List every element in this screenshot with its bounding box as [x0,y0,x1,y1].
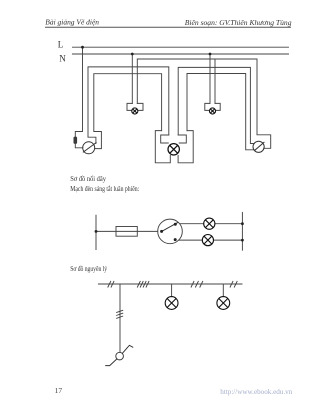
lamp 2 single-line [217,297,230,310]
terminal block on feed wire [74,137,78,144]
junction dot branch1 right [241,222,244,225]
svg-text:N: N [59,53,66,63]
wire lamp2 left lead to N [209,54,211,103]
fuse F1 [116,227,137,237]
junction dot lamp2 on N [209,53,212,56]
schematic neutral bar right [241,212,243,250]
switch S1 blade [83,142,97,152]
contact dot upper [174,223,177,226]
junction dot on L line [81,46,84,49]
junction dot feed bar [95,230,98,233]
switch single-line lower lead [105,359,117,366]
lamp L2 schematic [202,235,213,246]
conductor marks /// on drop [116,310,123,312]
lamp holder 2 outline [205,103,210,110]
svg-text:17: 17 [55,386,63,395]
drop to lamp 2 [222,284,224,297]
wire right loop outer (traveler) [178,67,254,143]
svg-text:Mạch đèn sáng tắt luân phiên:: Mạch đèn sáng tắt luân phiên: [70,185,139,193]
wire left loop inner (traveler) [94,74,162,149]
wire lamp2 right lead tee [214,59,216,103]
wire right loop inner (traveler) [187,74,254,150]
switch single-line blade with hook [122,345,133,353]
schematic phase bar left [95,215,97,249]
lamp Đ1 (holder 1 bulb) [132,108,138,114]
wire N line [73,53,289,55]
conductor marks // left [108,281,111,288]
wire feed to fuse and switch [96,230,158,232]
junction dot lamp1 on N [131,53,134,56]
wire branch 2 [179,239,203,241]
wire lamp1 left lead to N [131,54,133,103]
wire left loop outer (traveler) [88,67,169,143]
drop to lamp 1 [171,284,173,297]
selector switch blade [162,222,179,231]
contact dot common [160,230,163,233]
middle box lamp flare [161,135,169,143]
drop to switch [119,284,121,352]
conductor marks /// [191,281,194,288]
lamp Đ3 (middle box bulb) [168,144,179,155]
switch S2 body [253,141,264,152]
lamp 1 single-line [165,297,178,310]
svg-text:Bài giảng Vẽ điện: Bài giảng Vẽ điện [45,18,99,26]
lamp holder 1 outline [127,103,132,110]
svg-text:Biên soạn: GV.Thiên Khương Tùn: Biên soạn: GV.Thiên Khương Tùng [185,19,292,27]
wire from L to left switch (feed) [75,47,83,148]
svg-text:Sơ đồ nguyên lý: Sơ đồ nguyên lý [70,265,107,273]
svg-text:Sơ đồ nối dây: Sơ đồ nối dây [70,175,106,183]
junction dot branch2 right [241,239,244,242]
conductor marks //// [137,281,140,288]
conductor marks // right [230,281,233,288]
switch S2 blade [254,142,264,151]
lamp Đ2 (holder 2 bulb) [209,108,215,114]
wire L line [73,46,289,48]
wire lamp return run (both lamps to right switch) [137,59,270,148]
single-line main run [98,283,242,285]
middle ceiling box outline [155,131,170,163]
lamp L1 schematic [204,218,215,229]
svg-text:http://www.ebook.edu.vn: http://www.ebook.edu.vn [220,389,293,396]
selector switch body [158,219,183,244]
switch single-line body [116,352,124,360]
switch S1 body [83,142,95,154]
contact dot lower [174,238,177,241]
wire branch 1 [180,223,204,225]
svg-text:L: L [58,39,64,49]
header rule [45,26,291,28]
